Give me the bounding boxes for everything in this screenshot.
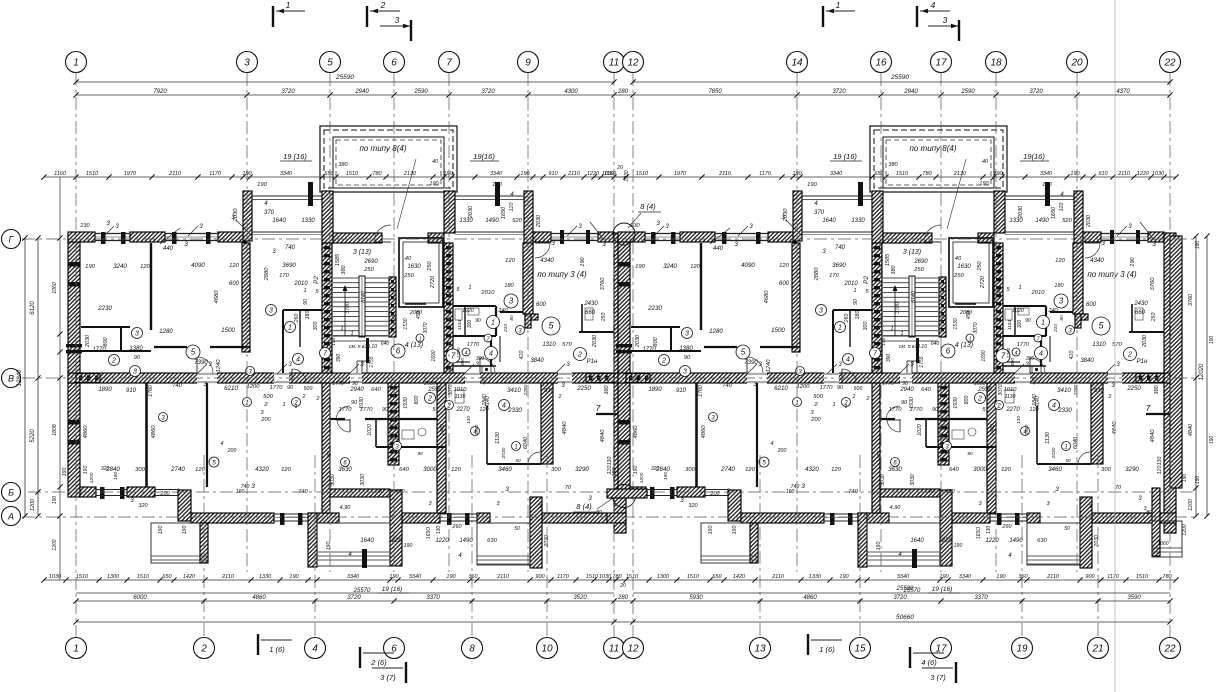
svg-text:370: 370 <box>264 210 275 216</box>
svg-text:1: 1 <box>836 0 841 10</box>
svg-text:12840: 12840 <box>17 369 23 386</box>
svg-text:1: 1 <box>514 445 517 451</box>
svg-text:10: 10 <box>541 644 553 655</box>
svg-text:120: 120 <box>509 203 515 212</box>
svg-text:2940: 2940 <box>354 89 369 95</box>
svg-text:Р1н: Р1н <box>587 359 598 365</box>
wall balcony pier <box>243 191 252 241</box>
svg-text:130: 130 <box>436 526 442 535</box>
svg-text:2590: 2590 <box>413 89 428 95</box>
svg-text:2010: 2010 <box>481 290 496 296</box>
svg-text:20: 20 <box>616 165 623 171</box>
svg-text:1160: 1160 <box>54 171 67 177</box>
axis circle bottom 22 <box>1160 638 1181 659</box>
dim 25570 left <box>76 592 614 594</box>
svg-text:3630: 3630 <box>338 466 352 473</box>
stair cut bar <box>366 338 369 363</box>
axis circle A <box>2 507 21 526</box>
chain bottom y580 <box>44 579 626 581</box>
svg-text:1630: 1630 <box>407 264 421 270</box>
svg-text:1: 1 <box>286 0 291 10</box>
svg-text:1930: 1930 <box>403 397 409 409</box>
svg-text:210: 210 <box>503 324 509 333</box>
svg-text:2: 2 <box>427 396 432 403</box>
svg-text:1: 1 <box>350 331 353 337</box>
svg-text:3: 3 <box>943 15 948 25</box>
svg-text:20: 20 <box>1070 58 1083 69</box>
svg-text:7850: 7850 <box>708 89 722 95</box>
svg-text:1: 1 <box>73 644 79 655</box>
dim total bottom <box>76 621 1170 623</box>
dim total top right <box>633 81 1170 83</box>
dim col right <box>1195 236 1197 516</box>
dim col left outer <box>24 238 26 516</box>
axis circle bottom 1 <box>66 638 87 659</box>
svg-text:1510: 1510 <box>86 171 99 177</box>
axis line 5 <box>329 73 331 572</box>
svg-text:1220: 1220 <box>587 171 600 177</box>
svg-text:1890: 1890 <box>98 387 112 393</box>
axis circle bottom 10 <box>537 638 558 659</box>
svg-text:3720: 3720 <box>832 89 846 95</box>
svg-text:180: 180 <box>504 283 514 289</box>
svg-text:520: 520 <box>512 218 522 224</box>
svg-text:4: 4 <box>220 441 223 447</box>
stair entry steps <box>356 361 358 373</box>
svg-text:4: 4 <box>489 351 493 358</box>
svg-text:3690: 3690 <box>282 262 296 269</box>
svg-text:2250: 2250 <box>576 386 591 392</box>
wall int 1 <box>150 243 152 330</box>
chain top y177 <box>44 176 626 178</box>
svg-text:190: 190 <box>1209 336 1215 345</box>
small circles extra <box>209 457 219 467</box>
svg-text:190: 190 <box>158 526 164 535</box>
svg-text:300: 300 <box>551 467 561 473</box>
svg-text:1510: 1510 <box>346 171 359 177</box>
section mark 2 <box>366 6 368 27</box>
svg-text:1780: 1780 <box>148 385 154 397</box>
svg-text:6120: 6120 <box>30 301 36 315</box>
svg-text:380: 380 <box>341 264 347 274</box>
svg-text:18: 18 <box>990 58 1002 69</box>
svg-text:2: 2 <box>380 0 386 10</box>
svg-text:380: 380 <box>604 384 610 394</box>
axis circle top 22 <box>1160 52 1181 73</box>
svg-text:1770: 1770 <box>360 407 374 413</box>
svg-text:6000: 6000 <box>133 595 147 601</box>
svg-text:3460: 3460 <box>498 466 512 473</box>
svg-text:1170: 1170 <box>209 171 222 177</box>
axis circle bottom 6 <box>384 638 405 659</box>
axis circle top 12 <box>623 52 644 73</box>
fold line <box>1114 0 1116 692</box>
svg-text:2: 2 <box>316 396 320 402</box>
svg-text:1154: 1154 <box>457 320 463 331</box>
svg-text:260: 260 <box>451 524 462 530</box>
svg-text:250: 250 <box>427 260 433 271</box>
svg-text:300: 300 <box>135 467 145 473</box>
wall int low 2 <box>322 383 330 513</box>
svg-text:1280: 1280 <box>159 328 173 335</box>
svg-text:2270: 2270 <box>455 407 470 413</box>
wall vent axis7 <box>444 243 453 373</box>
svg-text:1220: 1220 <box>388 538 402 544</box>
svg-text:190: 190 <box>580 256 586 266</box>
svg-text:50660: 50660 <box>896 614 914 621</box>
section mark 3 right <box>928 25 959 27</box>
svg-text:2590: 2590 <box>427 387 442 393</box>
dim col left <box>37 238 39 516</box>
axis row A <box>22 516 1196 518</box>
svg-text:А: А <box>7 512 14 522</box>
svg-text:5: 5 <box>212 460 216 467</box>
svg-text:19: 19 <box>1016 644 1028 655</box>
svg-text:380: 380 <box>85 373 91 383</box>
svg-text:3: 3 <box>106 220 110 227</box>
svg-text:4370: 4370 <box>1116 89 1130 95</box>
section mark 1 left <box>272 6 274 27</box>
section mark 4 <box>916 6 918 27</box>
section mark 3 top <box>380 25 411 27</box>
svg-text:3590: 3590 <box>1127 595 1141 601</box>
svg-text:3720: 3720 <box>347 595 361 601</box>
svg-text:3290: 3290 <box>575 466 589 473</box>
svg-text:910: 910 <box>126 388 137 394</box>
svg-text:4 (13): 4 (13) <box>405 342 423 349</box>
svg-text:3340: 3340 <box>409 574 422 580</box>
axis circle top 3 <box>237 52 258 73</box>
svg-text:3: 3 <box>251 483 255 490</box>
svg-text:190: 190 <box>62 468 68 477</box>
svg-text:40: 40 <box>432 159 439 165</box>
svg-text:6140: 6140 <box>361 291 367 303</box>
bathroom walls upper <box>453 305 496 307</box>
axis circle bottom 4 <box>305 638 326 659</box>
axis line 8 lower <box>471 455 473 637</box>
svg-text:90: 90 <box>351 400 358 406</box>
svg-text:9: 9 <box>525 58 531 69</box>
svg-text:14: 14 <box>791 58 803 69</box>
tower left wall <box>322 191 333 243</box>
svg-text:12: 12 <box>627 644 639 655</box>
axis circle bottom 2 <box>194 638 215 659</box>
svg-text:2110: 2110 <box>496 574 510 580</box>
svg-text:280: 280 <box>617 595 629 601</box>
closet walls <box>283 309 322 311</box>
svg-text:80: 80 <box>509 315 515 321</box>
axis line 20 <box>1076 73 1078 572</box>
axis circle bottom 11 <box>604 638 625 659</box>
vent shaft lower <box>388 383 399 465</box>
svg-text:1770: 1770 <box>467 342 480 348</box>
svg-text:500: 500 <box>263 394 273 400</box>
svg-text:1 (6): 1 (6) <box>819 645 835 654</box>
svg-text:5: 5 <box>191 348 196 357</box>
svg-text:250: 250 <box>403 273 414 279</box>
svg-text:90: 90 <box>417 451 423 457</box>
stair tower dashed walls <box>320 126 457 192</box>
svg-text:6: 6 <box>396 347 401 356</box>
svg-text:360: 360 <box>468 574 478 580</box>
svg-text:200: 200 <box>260 417 271 423</box>
axis circle top 20 <box>1067 52 1088 73</box>
svg-text:1 (6): 1 (6) <box>269 645 285 654</box>
svg-text:3340: 3340 <box>490 171 503 177</box>
svg-text:90: 90 <box>475 318 481 324</box>
svg-text:4860: 4860 <box>83 425 89 439</box>
balcony 2 slab <box>455 195 524 197</box>
wall axis3 interior <box>242 243 250 352</box>
svg-text:190: 190 <box>85 264 95 270</box>
svg-text:см. п.в10.10: см. п.в10.10 <box>349 344 377 350</box>
svg-text:570: 570 <box>562 342 572 348</box>
svg-text:2030: 2030 <box>592 334 598 348</box>
axis row B <box>28 491 1196 493</box>
svg-text:3410: 3410 <box>507 387 521 394</box>
svg-text:Б: Б <box>8 488 14 498</box>
svg-text:1585: 1585 <box>335 253 341 266</box>
fixtures <box>390 425 398 439</box>
svg-text:390: 390 <box>460 358 466 366</box>
svg-text:190: 190 <box>182 526 188 535</box>
svg-text:390: 390 <box>336 354 342 363</box>
door marks row V <box>197 364 207 374</box>
svg-text:190: 190 <box>113 472 119 480</box>
svg-text:1380: 1380 <box>129 346 143 352</box>
svg-text:320: 320 <box>101 466 110 472</box>
svg-text:4: 4 <box>502 403 506 410</box>
stair arrow <box>344 288 346 336</box>
axis line 3 <box>246 73 248 572</box>
svg-text:50: 50 <box>515 458 521 464</box>
svg-text:120: 120 <box>451 467 461 473</box>
svg-text:2110: 2110 <box>567 171 581 177</box>
axis circle bottom 21 <box>1088 638 1109 659</box>
svg-text:80: 80 <box>596 510 603 516</box>
svg-text:8 (4): 8 (4) <box>640 202 656 211</box>
axis circle top 7 <box>439 52 460 73</box>
svg-text:2110: 2110 <box>168 171 182 177</box>
svg-text:3240: 3240 <box>113 263 127 270</box>
svg-text:4: 4 <box>931 0 936 10</box>
wall int low 4 <box>541 383 553 464</box>
svg-text:3840: 3840 <box>530 358 544 364</box>
wall low partition <box>486 406 488 464</box>
svg-text:2010: 2010 <box>293 281 308 287</box>
svg-text:4: 4 <box>312 644 318 655</box>
svg-text:190: 190 <box>389 574 399 580</box>
wall corridor upper <box>154 346 187 348</box>
wall left exterior <box>68 234 80 497</box>
svg-text:180: 180 <box>305 311 311 320</box>
svg-text:120: 120 <box>229 263 239 269</box>
stair landing <box>333 335 388 337</box>
svg-text:120: 120 <box>281 467 291 473</box>
axis circle top 14 <box>787 52 808 73</box>
svg-text:200: 200 <box>227 448 237 454</box>
svg-text:1970: 1970 <box>124 171 137 177</box>
svg-text:190: 190 <box>83 466 89 475</box>
svg-text:3: 3 <box>395 15 400 25</box>
axis line 6 <box>393 73 395 572</box>
svg-text:по типу 3 (4): по типу 3 (4) <box>537 270 587 279</box>
svg-text:40: 40 <box>405 256 412 262</box>
svg-text:3720: 3720 <box>281 89 295 95</box>
svg-text:240: 240 <box>497 308 508 314</box>
svg-text:1020: 1020 <box>367 424 373 436</box>
svg-text:4340: 4340 <box>540 257 554 264</box>
svg-text:4860: 4860 <box>252 595 266 601</box>
axis circle B <box>2 483 21 502</box>
svg-text:2720: 2720 <box>430 275 436 289</box>
svg-text:5: 5 <box>327 58 333 69</box>
svg-text:640: 640 <box>381 341 390 347</box>
svg-text:6210: 6210 <box>224 385 238 392</box>
svg-text:3030: 3030 <box>360 474 366 486</box>
svg-text:380: 380 <box>338 162 348 168</box>
svg-text:7920: 7920 <box>153 89 167 95</box>
axis circle bottom 15 <box>850 638 871 659</box>
wall pier axis9 <box>524 191 533 250</box>
svg-text:630: 630 <box>487 538 497 544</box>
svg-text:900: 900 <box>535 574 545 580</box>
axis circle top 17 <box>931 52 952 73</box>
svg-text:2: 2 <box>577 352 582 359</box>
svg-text:3340: 3340 <box>347 574 360 580</box>
svg-text:1200: 1200 <box>1188 499 1194 511</box>
svg-text:170: 170 <box>279 273 289 279</box>
svg-text:1755: 1755 <box>369 356 375 367</box>
svg-text:120: 120 <box>505 258 515 264</box>
svg-text:1690: 1690 <box>431 350 437 361</box>
svg-text:7: 7 <box>451 352 456 361</box>
axis circle bottom 12 <box>623 638 644 659</box>
svg-text:1330: 1330 <box>301 218 315 224</box>
svg-text:3760: 3760 <box>1188 293 1194 306</box>
axis circle bottom 19 <box>1012 638 1033 659</box>
svg-text:250: 250 <box>601 313 607 323</box>
svg-text:300: 300 <box>467 320 473 329</box>
stair rail <box>359 276 365 337</box>
svg-text:1200: 1200 <box>30 498 36 511</box>
svg-text:1640: 1640 <box>360 538 374 544</box>
svg-text:3370: 3370 <box>426 595 440 601</box>
svg-text:1060: 1060 <box>1157 541 1168 547</box>
svg-text:19(16): 19(16) <box>473 152 495 161</box>
svg-text:17: 17 <box>935 58 947 69</box>
section mark 2(6) <box>359 647 361 668</box>
axis circle bottom 13 <box>750 638 771 659</box>
elevator shaft <box>399 238 443 307</box>
svg-text:3 (13): 3 (13) <box>353 249 371 256</box>
dim total top left <box>76 81 614 83</box>
svg-text:135: 135 <box>326 451 332 459</box>
svg-text:640: 640 <box>371 387 381 393</box>
svg-text:2740: 2740 <box>170 466 185 473</box>
svg-text:230: 230 <box>79 223 90 229</box>
svg-text:3760: 3760 <box>600 277 606 291</box>
svg-text:1020: 1020 <box>462 308 474 314</box>
svg-text:4840: 4840 <box>600 429 606 443</box>
axis circle bottom 17 <box>931 638 952 659</box>
svg-text:1490: 1490 <box>459 538 473 544</box>
svg-text:90: 90 <box>134 355 141 361</box>
svg-text:3070: 3070 <box>423 322 429 333</box>
svg-text:3 (7): 3 (7) <box>380 673 396 682</box>
svg-text:2: 2 <box>558 394 562 400</box>
svg-text:90: 90 <box>287 385 294 391</box>
svg-text:4090: 4090 <box>191 262 205 269</box>
svg-text:190: 190 <box>404 543 413 549</box>
svg-text:2: 2 <box>200 644 207 655</box>
svg-text:440: 440 <box>163 246 174 252</box>
wall axis9 room <box>523 243 533 314</box>
vent strip row V left <box>76 374 100 383</box>
wall room small <box>81 326 130 328</box>
axis line 13 lower <box>759 455 761 637</box>
svg-text:2880: 2880 <box>264 267 270 282</box>
axis row G <box>22 238 1196 240</box>
wall int low 3 <box>437 383 446 513</box>
dim axes bottom <box>76 600 1170 602</box>
walls bath lower <box>330 418 345 420</box>
svg-text:4: 4 <box>464 351 467 357</box>
svg-text:3: 3 <box>133 369 137 376</box>
svg-text:8: 8 <box>469 644 475 655</box>
svg-text:910: 910 <box>548 171 558 177</box>
svg-text:3000: 3000 <box>423 466 437 473</box>
door arcs upper <box>197 357 213 373</box>
svg-text:2690: 2690 <box>363 259 378 265</box>
axis line 14 <box>796 73 798 572</box>
axis line 22 <box>1169 73 1171 637</box>
svg-text:1130: 1130 <box>495 431 501 444</box>
closet top-right <box>581 304 583 332</box>
svg-text:1: 1 <box>303 288 306 294</box>
svg-text:1170: 1170 <box>557 574 570 580</box>
svg-text:1770: 1770 <box>339 407 353 413</box>
svg-text:25590: 25590 <box>335 74 354 81</box>
porch balcony left <box>151 523 207 563</box>
leader notes upper <box>236 220 252 236</box>
svg-text:450: 450 <box>416 311 422 320</box>
pier A1 <box>308 513 317 567</box>
wall int low 1 <box>145 383 148 487</box>
svg-text:190: 190 <box>1182 474 1188 483</box>
axis circle top 6 <box>384 52 405 73</box>
svg-text:1500: 1500 <box>221 327 235 334</box>
svg-text:3720: 3720 <box>1029 89 1043 95</box>
section mark 1(6) left <box>257 634 259 655</box>
svg-text:3: 3 <box>184 241 188 248</box>
svg-text:1: 1 <box>295 404 298 410</box>
svg-text:1510: 1510 <box>137 574 150 580</box>
dim 25590 right <box>633 592 1170 594</box>
wall section joint <box>614 233 626 533</box>
axis line 1 <box>75 73 77 637</box>
svg-text:5930: 5930 <box>689 595 703 601</box>
svg-text:420: 420 <box>519 351 525 360</box>
svg-text:6: 6 <box>391 58 397 69</box>
svg-text:1200: 1200 <box>1182 524 1188 535</box>
svg-text:2430: 2430 <box>583 301 598 307</box>
svg-text:1200: 1200 <box>247 384 261 390</box>
svg-text:19 (16): 19 (16) <box>382 586 403 593</box>
svg-text:Р2: Р2 <box>313 276 320 284</box>
svg-text:2030: 2030 <box>468 205 474 219</box>
svg-text:1510: 1510 <box>586 574 599 580</box>
